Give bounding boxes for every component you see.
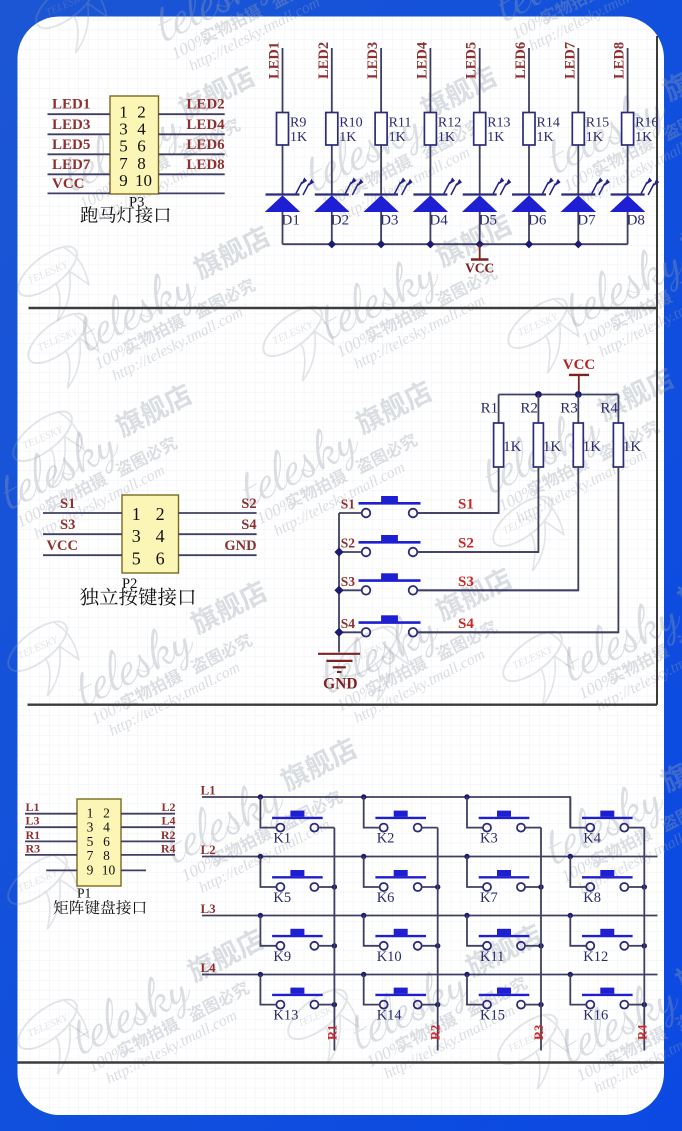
svg-text:S1: S1 <box>60 496 75 512</box>
wire LED1 vertical <box>282 48 284 244</box>
junction <box>334 547 343 556</box>
junction <box>361 972 366 977</box>
resistor R4 <box>600 395 641 468</box>
wire K10 right <box>422 945 438 947</box>
wire K15 right <box>525 1004 541 1006</box>
svg-text:K9: K9 <box>273 949 291 965</box>
wire R3 to S3 <box>417 467 578 590</box>
junction <box>328 240 336 248</box>
node LED4 label <box>414 42 430 79</box>
svg-text:3: 3 <box>119 119 128 138</box>
svg-text:D8: D8 <box>627 213 645 229</box>
wire S1 right <box>417 512 498 514</box>
svg-text:5: 5 <box>132 548 141 568</box>
svg-text:6: 6 <box>103 834 110 849</box>
svg-text:K2: K2 <box>377 831 395 847</box>
svg-text:LED5: LED5 <box>464 42 480 79</box>
svg-text:1K: 1K <box>635 130 652 145</box>
svg-text:R2: R2 <box>429 1025 443 1040</box>
junction <box>642 943 647 948</box>
svg-text:R15: R15 <box>586 116 609 131</box>
junction <box>334 628 343 637</box>
svg-text:L4: L4 <box>201 960 217 975</box>
junction <box>574 240 582 248</box>
svg-text:1K: 1K <box>543 439 562 455</box>
junction <box>538 1002 543 1007</box>
wire P1 pin 7 <box>25 854 77 856</box>
wire K8 right <box>629 886 645 888</box>
wire LED7 vertical <box>577 48 579 244</box>
svg-text:LED5: LED5 <box>52 137 90 153</box>
wire S2 right <box>417 551 538 553</box>
junction <box>568 854 573 859</box>
svg-text:D4: D4 <box>429 213 448 229</box>
svg-text:8: 8 <box>103 848 110 863</box>
svg-text:2: 2 <box>103 806 110 821</box>
wire P3 pin 6 <box>159 153 225 155</box>
svg-text:D1: D1 <box>282 213 300 229</box>
sheet divider 3 <box>18 1061 665 1063</box>
svg-text:R12: R12 <box>438 116 461 131</box>
node R1 (column label) <box>325 1025 339 1040</box>
svg-text:7: 7 <box>119 154 128 173</box>
LED D4 <box>413 177 462 228</box>
wire drop K14 <box>364 975 380 1005</box>
wire P2 pin 6 <box>179 554 257 556</box>
svg-text:LED8: LED8 <box>186 157 224 173</box>
wire R1 to S1 <box>417 467 498 513</box>
svg-text:1K: 1K <box>389 130 406 145</box>
svg-text:K3: K3 <box>480 831 498 847</box>
junction <box>538 943 543 948</box>
svg-text:S2: S2 <box>458 536 474 552</box>
svg-text:LED7: LED7 <box>52 157 91 173</box>
resistor R3 <box>560 395 601 468</box>
wire LED8 vertical <box>627 48 629 244</box>
svg-text:L3: L3 <box>201 901 217 916</box>
wire drop K8 <box>570 857 586 888</box>
LED D3 <box>364 177 413 228</box>
wire P3 pin 4 <box>159 133 225 135</box>
wire K16 right <box>629 1004 645 1006</box>
wire K1 right <box>319 827 335 829</box>
junction <box>535 391 542 398</box>
button K8 <box>582 870 633 891</box>
ground GND <box>318 654 360 693</box>
wire P3 pin 3 <box>48 133 111 135</box>
svg-text:D3: D3 <box>380 213 398 229</box>
wire P1 pin 8 <box>121 854 175 856</box>
junction <box>476 240 484 248</box>
svg-text:S4: S4 <box>341 616 356 631</box>
svg-text:9: 9 <box>119 171 128 190</box>
resistor R11 <box>375 113 411 146</box>
svg-text:L1: L1 <box>26 800 40 814</box>
svg-text:LED1: LED1 <box>267 42 283 79</box>
junction <box>642 1002 647 1007</box>
svg-text:VCC: VCC <box>52 176 85 192</box>
svg-text:K4: K4 <box>583 831 601 847</box>
wire LED5 vertical <box>479 48 481 244</box>
wire S1 left <box>339 512 362 514</box>
wire K9 right <box>319 945 335 947</box>
svg-text:R16: R16 <box>635 116 658 131</box>
junction <box>464 854 469 859</box>
svg-text:LED2: LED2 <box>316 42 332 79</box>
svg-text:GND: GND <box>323 676 357 693</box>
wire K3 right <box>525 827 541 829</box>
wire column R2 <box>437 828 439 1051</box>
junction <box>642 884 647 889</box>
junction <box>435 943 440 948</box>
svg-text:D2: D2 <box>331 213 349 229</box>
svg-text:1K: 1K <box>487 130 504 145</box>
node LED3 label <box>365 42 381 79</box>
wire K7 right <box>525 886 541 888</box>
svg-text:L4: L4 <box>161 814 175 828</box>
wire P1 pin 2 <box>121 813 175 815</box>
svg-text:K6: K6 <box>377 890 395 906</box>
caption 跑马灯接口 <box>81 206 170 223</box>
svg-text:LED2: LED2 <box>186 97 224 113</box>
svg-text:R4: R4 <box>161 841 176 855</box>
junction <box>332 943 337 948</box>
wire R2 to S2 <box>417 467 538 552</box>
svg-text:6: 6 <box>156 548 165 568</box>
wire P1 pin 10 <box>121 869 146 871</box>
svg-text:1K: 1K <box>290 130 307 145</box>
LED D7 <box>561 177 610 228</box>
svg-text:R1: R1 <box>26 828 41 842</box>
button K14 <box>375 988 426 1009</box>
wire row L1 <box>202 797 570 828</box>
junction <box>332 884 337 889</box>
junction <box>426 240 434 248</box>
svg-text:D6: D6 <box>528 213 547 229</box>
button K13 <box>272 988 323 1009</box>
wire P1 pin 1 <box>25 813 77 815</box>
junction <box>361 794 366 799</box>
svg-text:8: 8 <box>137 154 146 173</box>
wire drop K7 <box>467 857 483 888</box>
power VCC (LED bus) <box>465 244 494 275</box>
wire P1 pin 4 <box>121 826 175 828</box>
wire P3 pin 7 <box>48 173 111 175</box>
svg-text:K1: K1 <box>273 831 291 847</box>
svg-text:VCC: VCC <box>47 538 78 554</box>
sheet divider 1 <box>29 307 658 309</box>
svg-text:K8: K8 <box>583 890 601 906</box>
junction <box>361 913 366 918</box>
svg-text:2: 2 <box>137 102 146 121</box>
connector P1 <box>77 799 121 886</box>
wire column R1 <box>333 828 335 1051</box>
junction <box>361 854 366 859</box>
svg-text:VCC: VCC <box>563 357 596 373</box>
button K12 <box>582 929 633 950</box>
sheet divider 2 <box>28 704 658 706</box>
svg-text:S1: S1 <box>458 497 474 513</box>
svg-text:R10: R10 <box>339 116 362 131</box>
wire P2 pin 2 <box>179 512 257 514</box>
wire drop K9 <box>260 916 276 946</box>
wire LED6 vertical <box>528 48 530 244</box>
wire drop K4 <box>570 797 586 828</box>
svg-text:R2: R2 <box>161 828 176 842</box>
svg-text:10: 10 <box>102 862 116 877</box>
svg-text:1: 1 <box>119 102 128 121</box>
svg-text:LED7: LED7 <box>562 42 578 79</box>
svg-text:LED8: LED8 <box>612 42 628 79</box>
button K11 <box>479 929 530 950</box>
wire row L2 <box>202 856 658 858</box>
svg-text:S3: S3 <box>60 517 75 533</box>
connector P2 <box>122 495 179 573</box>
wire resistor top bus <box>499 394 619 396</box>
node LED1 label <box>267 42 283 79</box>
resistor R16 <box>622 113 659 146</box>
svg-text:K16: K16 <box>583 1008 608 1024</box>
wire P2 pin 3 <box>43 533 122 535</box>
svg-text:4: 4 <box>137 119 146 138</box>
junction <box>464 972 469 977</box>
wire drop K10 <box>364 916 380 946</box>
wire LED2 vertical <box>331 48 333 244</box>
wire drop K1 <box>260 797 276 828</box>
svg-text:D7: D7 <box>577 213 596 229</box>
svg-text:4: 4 <box>156 526 165 546</box>
svg-text:D5: D5 <box>479 213 497 229</box>
button K16 <box>582 988 633 1009</box>
junction <box>258 794 263 799</box>
button K1 <box>272 811 323 832</box>
wire drop K5 <box>260 857 276 888</box>
svg-text:L2: L2 <box>201 842 216 857</box>
svg-text:LED6: LED6 <box>513 42 529 79</box>
button S4 <box>359 615 421 636</box>
node R3 (column label) <box>532 1025 546 1040</box>
svg-text:9: 9 <box>87 862 94 877</box>
caption 独立按键接口 <box>80 588 195 606</box>
wire P1 pin 6 <box>121 840 175 842</box>
button K4 <box>582 811 633 832</box>
node LED6 label <box>513 42 529 79</box>
resistor R2 <box>520 395 561 468</box>
node LED7 label <box>562 42 578 79</box>
svg-text:5: 5 <box>119 137 128 156</box>
button S1 <box>359 496 421 517</box>
svg-text:LED4: LED4 <box>186 117 225 133</box>
resistor R13 <box>474 113 511 146</box>
wire P3 pin 10 <box>159 192 225 194</box>
svg-text:1K: 1K <box>537 130 554 145</box>
junction <box>464 913 469 918</box>
wire row L3 <box>202 915 658 917</box>
svg-text:S3: S3 <box>341 574 356 589</box>
svg-text:S2: S2 <box>241 496 256 512</box>
LED D2 <box>315 177 364 228</box>
svg-text:1K: 1K <box>339 130 356 145</box>
svg-text:K11: K11 <box>480 949 504 965</box>
junction <box>332 1002 337 1007</box>
svg-text:GND: GND <box>224 538 256 554</box>
power VCC (keys) <box>563 357 596 395</box>
button K15 <box>479 988 530 1009</box>
resistor R9 <box>277 113 308 146</box>
wire drop K12 <box>570 916 586 946</box>
svg-text:L3: L3 <box>26 814 40 828</box>
svg-text:VCC: VCC <box>465 261 494 276</box>
svg-text:6: 6 <box>137 137 146 156</box>
wire drop K3 <box>467 797 483 828</box>
wire P1 pin 3 <box>25 826 77 828</box>
wire drop K15 <box>467 975 483 1005</box>
wire K4 right <box>629 827 645 829</box>
LED D6 <box>512 177 561 228</box>
wire LED3 vertical <box>380 48 382 244</box>
resistor R14 <box>523 113 560 146</box>
svg-text:K14: K14 <box>377 1008 403 1024</box>
junction <box>258 972 263 977</box>
wire R4 to S4 <box>417 467 618 632</box>
svg-text:K7: K7 <box>480 890 498 906</box>
junction <box>435 1002 440 1007</box>
wire K11 right <box>525 945 541 947</box>
LED D5 <box>463 177 512 228</box>
node R2 (column label) <box>429 1025 443 1040</box>
node LED2 label <box>316 42 332 79</box>
svg-text:R4: R4 <box>635 1024 649 1040</box>
junction <box>568 972 573 977</box>
svg-text:S2: S2 <box>341 536 356 551</box>
svg-text:R3: R3 <box>532 1025 546 1040</box>
wire drop K11 <box>467 916 483 946</box>
button K3 <box>479 811 530 832</box>
svg-text:R11: R11 <box>389 116 412 131</box>
junction <box>538 884 543 889</box>
svg-text:K15: K15 <box>480 1008 505 1024</box>
svg-text:S1: S1 <box>341 497 356 512</box>
svg-text:R1: R1 <box>481 401 499 417</box>
wire drop K13 <box>260 975 276 1005</box>
wire S2 left <box>339 551 362 553</box>
wire K6 right <box>422 886 438 888</box>
wire S3 left <box>339 589 362 591</box>
svg-text:K10: K10 <box>377 949 402 965</box>
junction <box>568 913 573 918</box>
svg-text:3: 3 <box>132 526 141 546</box>
svg-text:R4: R4 <box>600 401 618 417</box>
svg-text:1: 1 <box>132 504 141 524</box>
wire drop K2 <box>364 797 380 828</box>
wire P3 pin 9 <box>48 192 111 194</box>
wire K14 right <box>422 1004 438 1006</box>
svg-text:LED1: LED1 <box>52 97 90 113</box>
wire K12 right <box>629 945 645 947</box>
svg-text:1K: 1K <box>623 439 642 455</box>
svg-text:10: 10 <box>135 171 152 190</box>
wire P2 pin 5 <box>43 554 122 556</box>
svg-text:3: 3 <box>87 820 94 835</box>
button S3 <box>359 573 421 594</box>
svg-text:LED3: LED3 <box>365 42 381 79</box>
svg-text:1K: 1K <box>438 130 455 145</box>
svg-text:5: 5 <box>87 834 94 849</box>
button K2 <box>375 811 426 832</box>
wire drop K16 <box>570 975 586 1005</box>
wire P2 pin 1 <box>43 512 122 514</box>
wire P1 pin 9 <box>46 869 77 871</box>
junction <box>525 240 533 248</box>
resistor R10 <box>326 113 363 146</box>
junction <box>464 794 469 799</box>
svg-text:R3: R3 <box>26 841 41 855</box>
svg-text:K13: K13 <box>273 1008 298 1024</box>
wire S4 right <box>417 631 618 633</box>
resistor R15 <box>572 113 609 146</box>
svg-text:S4: S4 <box>241 517 256 533</box>
svg-text:R14: R14 <box>537 116 560 131</box>
wire P2 pin 4 <box>179 533 257 535</box>
wire ground rail <box>338 513 340 652</box>
svg-text:LED4: LED4 <box>414 42 430 79</box>
svg-text:1K: 1K <box>503 439 521 455</box>
svg-text:R9: R9 <box>290 116 306 131</box>
button K10 <box>375 929 426 950</box>
junction <box>334 586 343 595</box>
resistor R12 <box>424 113 461 146</box>
svg-text:K12: K12 <box>583 949 608 965</box>
svg-text:1: 1 <box>87 806 94 821</box>
svg-text:R3: R3 <box>560 401 578 417</box>
wire K5 right <box>319 886 335 888</box>
svg-text:LED6: LED6 <box>186 137 225 153</box>
wire drop K6 <box>364 857 380 888</box>
svg-text:S4: S4 <box>458 616 474 632</box>
wire column R4 <box>643 828 645 1051</box>
wire S3 right <box>417 589 578 591</box>
junction <box>435 884 440 889</box>
svg-text:1K: 1K <box>586 130 603 145</box>
svg-text:R1: R1 <box>325 1025 339 1040</box>
button K6 <box>375 870 426 891</box>
svg-text:R2: R2 <box>520 401 538 417</box>
button K7 <box>479 870 530 891</box>
svg-text:LED3: LED3 <box>52 117 90 133</box>
wire P1 pin 5 <box>25 840 77 842</box>
connector P3 <box>110 96 159 194</box>
svg-text:1K: 1K <box>583 439 602 455</box>
wire S4 left <box>339 631 362 633</box>
svg-text:2: 2 <box>156 504 165 524</box>
node LED5 label <box>464 42 480 79</box>
sheet border right edge <box>656 36 658 705</box>
svg-text:L1: L1 <box>201 783 216 798</box>
wire P3 pin 2 <box>159 113 225 115</box>
svg-text:P2: P2 <box>122 576 137 592</box>
button S2 <box>359 535 421 556</box>
svg-text:4: 4 <box>103 820 110 835</box>
svg-text:P1: P1 <box>77 886 91 901</box>
wire row L4 <box>202 974 658 976</box>
wire P3 pin 8 <box>159 173 225 175</box>
LED D8 <box>611 177 660 228</box>
svg-text:S3: S3 <box>458 574 474 590</box>
wire column R3 <box>540 828 542 1051</box>
button K5 <box>272 870 323 891</box>
svg-text:L2: L2 <box>161 800 175 814</box>
wire anode bus <box>283 243 628 245</box>
